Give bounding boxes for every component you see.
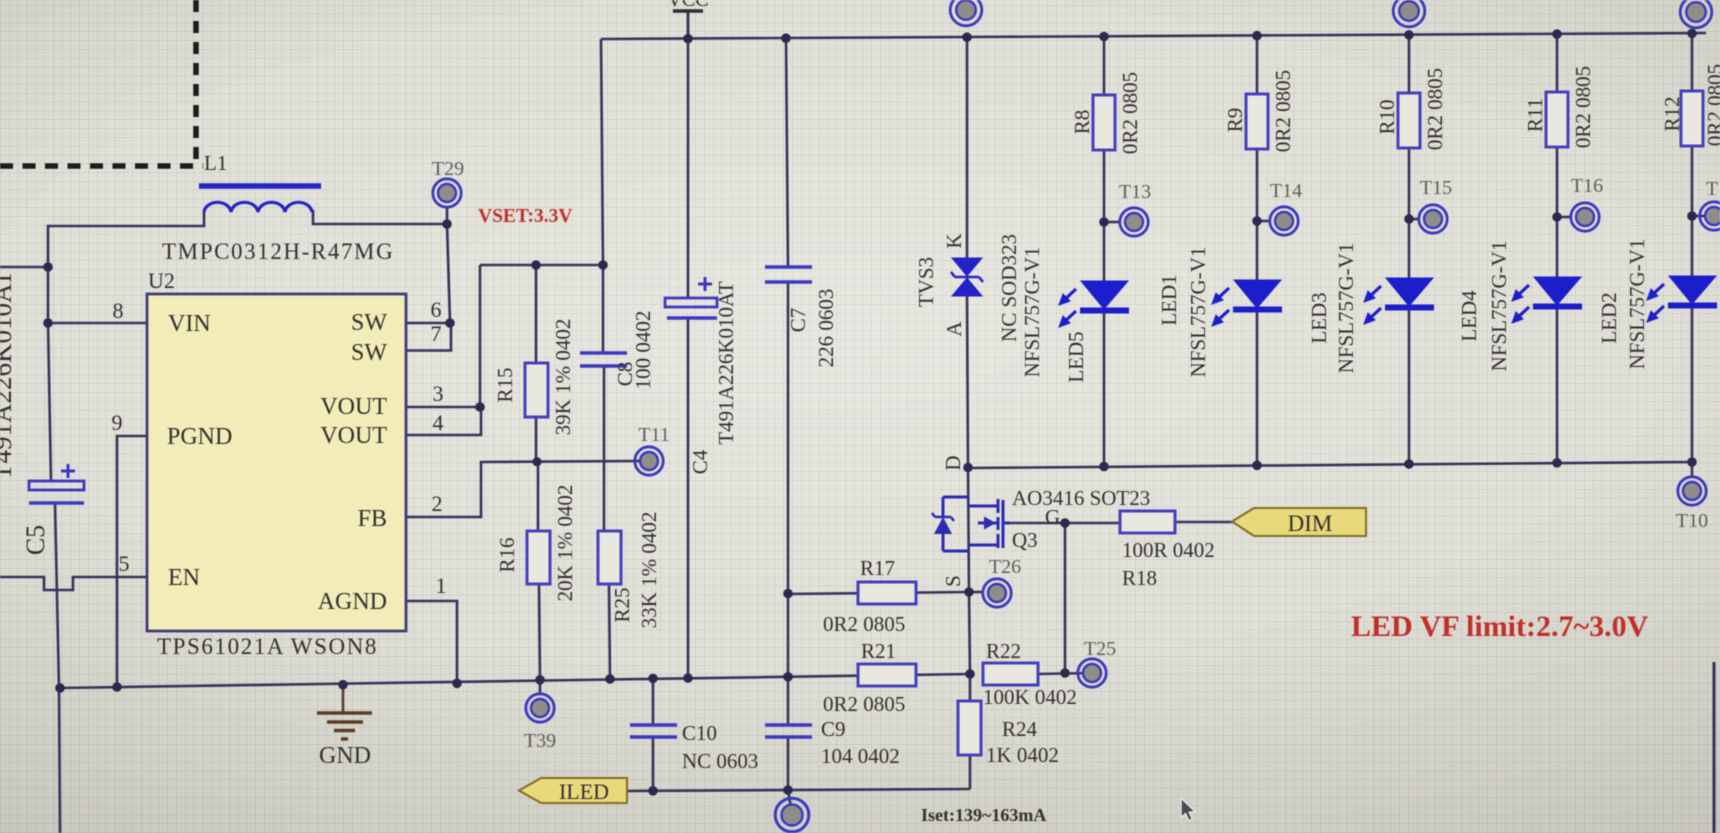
wire VCC stub: [687, 11, 690, 39]
svg-text:226 0603: 226 0603: [814, 289, 838, 368]
wire AGND pin1: [406, 601, 457, 684]
svg-text:NFSL757G-V1: NFSL757G-V1: [1186, 247, 1210, 378]
wire R15 column: [535, 265, 538, 363]
svg-text:SW: SW: [351, 340, 387, 366]
node C7 top: [781, 33, 791, 43]
capacitor C5 plates: [29, 481, 84, 490]
svg-text:T11: T11: [638, 424, 669, 446]
svg-text:C9: C9: [821, 717, 846, 741]
svg-text:ILED: ILED: [559, 779, 609, 804]
svg-text:NFSL757G-V1: NFSL757G-V1: [1625, 239, 1649, 370]
svg-text:R10: R10: [1375, 99, 1399, 134]
svg-text:39K 1% 0402: 39K 1% 0402: [551, 319, 575, 436]
node R17 left: [783, 589, 793, 599]
node T14 junction: [1252, 216, 1262, 226]
svg-text:T39: T39: [524, 730, 556, 752]
wire ILED line: [627, 789, 970, 791]
svg-text:LED2: LED2: [1597, 292, 1621, 343]
node GND bus: R25: [605, 674, 615, 684]
resistor R12: [1681, 91, 1703, 146]
node GND bus: C9/R17 col: [783, 672, 793, 682]
port flag DIM: [1232, 508, 1366, 536]
test point T15: [1419, 205, 1447, 233]
svg-text:33K 1% 0402: 33K 1% 0402: [637, 512, 661, 629]
node ILED C10: [648, 786, 658, 796]
capacitor C7 plates: [765, 265, 812, 268]
svg-text:NFSL757G-V1: NFSL757G-V1: [1334, 243, 1358, 374]
svg-text:R22: R22: [986, 639, 1021, 663]
svg-text:VSET:3.3V: VSET:3.3V: [478, 206, 572, 227]
node R12 top: [1687, 29, 1697, 39]
test point pad-top-1: [950, 0, 982, 26]
wire C8 riser: [601, 39, 603, 265]
svg-text:104 0402: 104 0402: [821, 744, 900, 768]
test point T14: [1270, 207, 1298, 235]
svg-text:7: 7: [431, 321, 442, 346]
dashed block boundary vertical: [193, 0, 199, 166]
resistor R25: [598, 531, 621, 584]
svg-text:T29: T29: [432, 158, 464, 180]
svg-text:R11: R11: [1523, 98, 1547, 132]
port flag ILED: [519, 778, 627, 803]
wire PGND pin9: [117, 436, 147, 687]
svg-text:R16: R16: [495, 537, 519, 572]
svg-text:0R2 0805: 0R2 0805: [823, 692, 905, 716]
wire gate lead to R18: [1003, 522, 1120, 525]
node D: [963, 463, 973, 473]
resistor R22: [983, 663, 1038, 685]
svg-text:3: 3: [433, 381, 444, 406]
node T13 junction: [1099, 217, 1109, 227]
svg-text:T25: T25: [1084, 638, 1116, 660]
svg-text:100 0402: 100 0402: [631, 311, 655, 390]
svg-text:R15: R15: [493, 367, 517, 402]
wire R24 column: [969, 674, 972, 701]
svg-text:VOUT: VOUT: [320, 394, 387, 420]
svg-text:0R2 0805: 0R2 0805: [1271, 70, 1295, 152]
svg-text:C10: C10: [682, 721, 717, 745]
svg-text:LED3: LED3: [1307, 292, 1331, 343]
svg-text:4: 4: [433, 410, 444, 435]
svg-text:R18: R18: [1122, 566, 1157, 590]
mouse cursor: [1181, 798, 1195, 821]
svg-text:R17: R17: [860, 556, 895, 580]
svg-text:C4: C4: [688, 449, 712, 474]
wire R8 column: [1103, 37, 1106, 96]
svg-text:20K 1% 0402: 20K 1% 0402: [553, 485, 577, 602]
led LED3 symbol: [1364, 278, 1434, 324]
svg-text:0R2 0805: 0R2 0805: [1423, 68, 1447, 150]
svg-text:R12: R12: [1660, 96, 1684, 131]
svg-text:NFSL757G-V1: NFSL757G-V1: [1487, 241, 1511, 372]
resistor R11: [1546, 92, 1568, 147]
wire R9 column: [1256, 36, 1259, 94]
wire C5 column upper: [48, 323, 51, 482]
wire VOUT mid horizontal: [480, 264, 603, 267]
node VCC: [683, 34, 693, 44]
node L1/T29: [442, 219, 452, 229]
capacitor C4 plates: [665, 298, 717, 307]
resistor R10: [1398, 93, 1420, 148]
svg-text:D: D: [941, 455, 965, 470]
svg-text:LED VF limit:2.7~3.0V: LED VF limit:2.7~3.0V: [1351, 610, 1649, 643]
svg-text:T16: T16: [1571, 175, 1603, 197]
VCC power bar: [673, 9, 703, 12]
wire R11 column: [1556, 35, 1559, 93]
node S: [964, 587, 974, 597]
wire R18 to DIM flag: [1175, 521, 1232, 524]
node D bus R8: [1099, 462, 1109, 472]
node R9 top: [1252, 31, 1262, 41]
wire D bus: [968, 462, 1692, 468]
svg-text:VCC: VCC: [667, 0, 708, 11]
ground symbol: [317, 713, 372, 739]
wire R16 column: [537, 462, 540, 531]
svg-text:G: G: [1045, 505, 1060, 529]
wire R10 column: [1408, 35, 1411, 93]
mosfet Q3: [932, 497, 1010, 551]
wire G node column: [1064, 523, 1067, 673]
dashed block boundary horizontal: [0, 163, 203, 169]
svg-text:8: 8: [113, 298, 124, 323]
node FB divider: [532, 457, 541, 466]
svg-text:FB: FB: [358, 506, 387, 532]
node SW pins: [445, 318, 455, 328]
test point T25: [1078, 659, 1106, 687]
svg-text:NFSL757G-V1: NFSL757G-V1: [1020, 247, 1044, 378]
svg-text:100R 0402: 100R 0402: [1122, 538, 1215, 562]
node R8 top: [1099, 32, 1109, 42]
node GND bus: R16/T39: [535, 675, 545, 685]
wire GND bottom bus: [58, 674, 970, 688]
svg-text:AO3416 SOT23: AO3416 SOT23: [1012, 486, 1150, 510]
svg-text:TMPC0312H-R47MG: TMPC0312H-R47MG: [162, 239, 394, 264]
svg-text:AGND: AGND: [318, 589, 387, 615]
node VOUT pins: [475, 402, 485, 412]
svg-text:0R2 0805: 0R2 0805: [1118, 72, 1142, 154]
node GND bus: AGND: [452, 679, 462, 689]
svg-text:1: 1: [436, 573, 447, 598]
capacitor C8 plates: [580, 351, 627, 354]
svg-text:T491A226K010AT: T491A226K010AT: [0, 270, 17, 480]
wire inductor right lead to T29 column: [313, 210, 447, 224]
node TVS top: [962, 32, 972, 42]
node T17 junction: [1687, 211, 1697, 221]
wire T39 stub: [539, 679, 542, 694]
test point Tpad-bottom: [775, 798, 809, 832]
TVS3 symbol: [951, 258, 983, 296]
test point T16: [1571, 203, 1599, 231]
test point pad-top-3: [1680, 0, 1712, 28]
led LED4 symbol: [1512, 277, 1582, 323]
svg-text:R21: R21: [861, 639, 896, 663]
wire C4 column: [687, 11, 690, 298]
node GND bus: C10: [648, 674, 658, 684]
svg-text:LED4: LED4: [1457, 290, 1481, 342]
svg-text:1K 0402: 1K 0402: [986, 743, 1059, 767]
svg-text:C7: C7: [786, 308, 810, 333]
svg-text:LED5: LED5: [1064, 331, 1088, 382]
node S bus junction: [965, 669, 975, 679]
svg-text:R25: R25: [610, 587, 634, 622]
resistor R16: [527, 531, 550, 584]
svg-text:T14: T14: [1270, 180, 1302, 202]
resistor R21: [858, 664, 916, 686]
wire T29 column to SW pins: [447, 224, 450, 323]
svg-text:SW: SW: [351, 310, 387, 336]
wire TVS/Q3 column: [966, 37, 969, 258]
node T15 junction: [1404, 214, 1414, 224]
node GND bus: gnd sym: [338, 680, 348, 690]
svg-text:L1: L1: [204, 151, 227, 175]
svg-text:NC 0603: NC 0603: [682, 749, 758, 773]
wire C5 column lower: [55, 503, 60, 833]
svg-text:EN: EN: [168, 565, 200, 591]
svg-text:Q3: Q3: [1012, 528, 1038, 552]
wire C7/C9 column: [786, 38, 788, 267]
test point T26: [983, 579, 1011, 607]
wire VIN pin8 stub: [48, 322, 149, 325]
wire inductor left lead down to VIN column: [48, 210, 204, 323]
node D bus R10: [1404, 459, 1414, 469]
wire R25 bottom: [609, 584, 610, 679]
svg-text:R24: R24: [1002, 717, 1038, 741]
svg-text:0R2 0805: 0R2 0805: [823, 612, 905, 636]
node VOUT mid R15: [531, 260, 541, 270]
wire VIN stub to left edge: [0, 266, 48, 269]
capacitor C10 plates: [630, 723, 677, 726]
svg-text:T10: T10: [1676, 510, 1708, 532]
node R10 top: [1404, 30, 1414, 40]
ic U2 body: [147, 294, 406, 631]
wire FB pin2: [406, 461, 637, 517]
resistor R8: [1093, 95, 1115, 150]
node T16 junction: [1552, 212, 1562, 222]
node GND bus: C4: [683, 673, 693, 683]
test point T39: [526, 694, 554, 722]
svg-text:TVS3: TVS3: [914, 257, 938, 307]
led LED2 symbol: [1647, 276, 1717, 322]
svg-text:NC SOD323: NC SOD323: [997, 234, 1021, 342]
svg-text:0R2 0805: 0R2 0805: [1703, 64, 1720, 146]
svg-text:R8: R8: [1070, 110, 1094, 135]
svg-text:S: S: [941, 575, 965, 587]
svg-text:9: 9: [112, 410, 123, 435]
resistor R18: [1120, 511, 1175, 533]
svg-text:K: K: [942, 233, 966, 248]
svg-text:T13: T13: [1119, 181, 1151, 203]
resistor R9: [1246, 94, 1268, 149]
inductor L1 bar: [199, 183, 321, 189]
resistor R15: [525, 363, 548, 417]
test point T13: [1120, 208, 1148, 236]
test point T10: [1678, 477, 1706, 505]
node GND bus: C5: [55, 683, 65, 693]
led LED1 symbol: [1212, 280, 1282, 326]
node G/R22/T25: [1060, 668, 1070, 678]
node D bus R9: [1252, 461, 1262, 471]
svg-text:DIM: DIM: [1288, 511, 1333, 536]
svg-text:U2: U2: [148, 268, 175, 293]
wire SW stubs: [406, 322, 450, 325]
svg-text:T: T: [1706, 178, 1718, 200]
svg-text:VOUT: VOUT: [320, 423, 387, 449]
node VIN left upper: [43, 262, 53, 272]
svg-text:C5: C5: [21, 525, 50, 555]
node VIN pin8: [43, 318, 53, 328]
resistor R24: [958, 701, 981, 755]
svg-text:VIN: VIN: [168, 311, 211, 337]
svg-text:A: A: [942, 321, 966, 337]
svg-text:100K 0402: 100K 0402: [983, 685, 1077, 709]
svg-text:R9: R9: [1223, 108, 1247, 133]
node R11 top: [1552, 29, 1562, 39]
wire R12 column: [1691, 34, 1694, 92]
svg-text:6: 6: [431, 297, 442, 322]
LED/R columns: [688, 11, 1705, 467]
wire C10 column: [652, 678, 655, 725]
svg-text:T491A226K010AT: T491A226K010AT: [714, 281, 738, 444]
svg-text:Iset:139~163mA: Iset:139~163mA: [921, 805, 1046, 825]
node D bus R12: [1687, 457, 1697, 467]
inductor L1 coil: [204, 202, 312, 212]
led LED5 symbol: [1059, 281, 1129, 327]
wire T10 drop: [1691, 462, 1694, 478]
svg-text:PGND: PGND: [167, 424, 232, 450]
node C8 corner: [598, 260, 608, 270]
node G: [1060, 518, 1070, 528]
wire top VCC bus: [601, 33, 1706, 39]
svg-text:GND: GND: [319, 743, 371, 769]
wire T26 stub: [969, 591, 984, 594]
resistor R17: [858, 582, 916, 604]
test point T29: [433, 179, 461, 207]
node GND bus: pin9: [112, 682, 122, 692]
svg-text:0R2 0805: 0R2 0805: [1571, 66, 1595, 148]
wire R17 source line: [788, 592, 969, 594]
svg-text:2: 2: [432, 491, 443, 516]
test point T17: [1700, 202, 1720, 230]
svg-text:TPS61021A WSON8: TPS61021A WSON8: [157, 634, 378, 659]
wire GND symbol stub: [342, 685, 345, 712]
svg-text:T15: T15: [1420, 177, 1452, 199]
svg-text:5: 5: [119, 551, 130, 576]
capacitor C9 plates: [765, 723, 812, 726]
wire C8 column: [602, 265, 605, 353]
wire sheet border right: [1713, 662, 1716, 833]
svg-text:LED1: LED1: [1157, 274, 1181, 325]
wire EN pin5 with jog: [0, 577, 147, 590]
wire VOUT risers pins 3/4: [406, 265, 480, 407]
node D bus R11: [1552, 458, 1562, 468]
svg-text:T26: T26: [989, 556, 1021, 578]
wire R22/T25 segment: [1038, 673, 1092, 674]
test point pad-top-2: [1393, 0, 1425, 27]
test point T11: [635, 447, 663, 475]
wire T11 stub: [637, 460, 650, 463]
node ILED C9: [783, 785, 793, 795]
